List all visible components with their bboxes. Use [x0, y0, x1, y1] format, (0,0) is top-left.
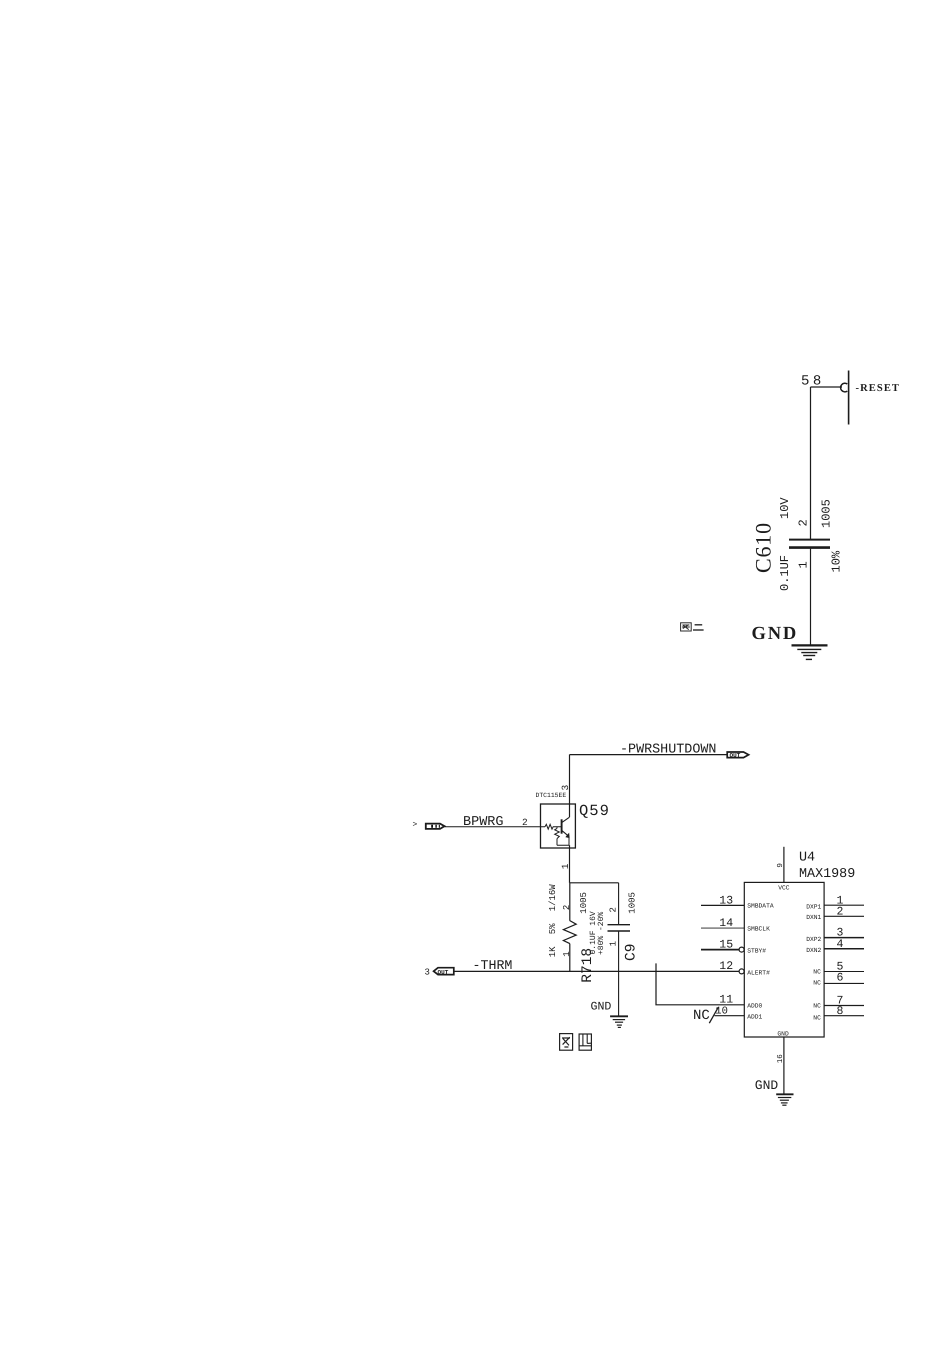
svg-text:1005: 1005	[820, 499, 834, 528]
svg-text:>: >	[413, 821, 418, 830]
svg-text:U4: U4	[799, 851, 815, 866]
pin 8 stub	[824, 1015, 864, 1017]
svg-text:NC: NC	[813, 980, 821, 987]
svg-text:DXN2: DXN2	[806, 947, 821, 954]
resistor R718	[563, 883, 576, 972]
svg-text:-PWRSHUTDOWN: -PWRSHUTDOWN	[620, 743, 716, 758]
svg-text:1: 1	[608, 941, 618, 946]
wire node to C9 top	[570, 882, 619, 884]
no-connect slash pin 10	[709, 1007, 718, 1023]
caption 图二	[681, 623, 704, 631]
svg-text:15: 15	[719, 938, 733, 951]
pin 4 stub	[824, 948, 864, 950]
pin 15 stub	[701, 949, 739, 951]
svg-text:8: 8	[837, 1005, 844, 1018]
svg-text:1: 1	[562, 951, 572, 956]
svg-text:10%: 10%	[830, 550, 844, 572]
svg-text:16: 16	[776, 1054, 785, 1064]
connector bar	[848, 371, 850, 425]
wire C610 pin1 to ground	[810, 549, 812, 645]
svg-text:GND: GND	[755, 1078, 779, 1093]
svg-text:9: 9	[776, 863, 785, 868]
svg-text:OUT: OUT	[438, 969, 449, 976]
pin 14 stub	[701, 927, 744, 929]
svg-text:SMBCLK: SMBCLK	[747, 925, 770, 932]
svg-text:NC: NC	[693, 1008, 710, 1024]
svg-text:ALERT#: ALERT#	[747, 969, 770, 976]
wire BPWRG	[445, 826, 546, 828]
svg-text:GND: GND	[752, 624, 799, 644]
svg-text:ADD0: ADD0	[747, 1003, 762, 1010]
wire collector up	[569, 755, 571, 817]
svg-text:1005: 1005	[579, 892, 589, 914]
pin 3 stub	[824, 937, 864, 939]
wire -THRM	[453, 970, 739, 972]
pin 12 bubble	[739, 969, 744, 974]
svg-text:Q59: Q59	[579, 802, 610, 820]
svg-text:13: 13	[719, 894, 733, 907]
ground (U4)	[776, 1094, 793, 1105]
svg-text:VCC: VCC	[778, 884, 790, 891]
capacitor C9	[608, 883, 631, 1017]
svg-text:+80% -20%: +80% -20%	[597, 912, 606, 955]
svg-text:ADD1: ADD1	[747, 1014, 762, 1021]
svg-text:DXP2: DXP2	[806, 936, 821, 943]
svg-text:DXN1: DXN1	[806, 914, 821, 921]
svg-text:4: 4	[837, 938, 844, 951]
svg-text:1K: 1K	[548, 946, 558, 957]
port tag IN (bpwrg)	[426, 824, 445, 829]
pin 5 stub	[824, 971, 864, 973]
svg-text:MAX1989: MAX1989	[799, 867, 855, 882]
pin 2 stub	[824, 915, 864, 917]
wire emitter pin1 down	[569, 845, 571, 883]
svg-text:C610: C610	[750, 522, 775, 573]
svg-text:5%: 5%	[548, 923, 558, 934]
svg-text:DXP1: DXP1	[806, 903, 821, 910]
svg-text:1/16W: 1/16W	[548, 884, 558, 912]
wire GND pin 16	[783, 1037, 785, 1094]
port tag OUT (thrm)	[434, 968, 454, 976]
svg-text:BPWRG: BPWRG	[463, 815, 504, 830]
pin 1 stub	[824, 904, 864, 906]
pin 15 bubble	[739, 947, 744, 952]
port tag OUT (pwrshutdown)	[727, 752, 748, 759]
svg-text:NC: NC	[813, 968, 821, 975]
svg-text:DTC115EE: DTC115EE	[536, 792, 567, 799]
pin 7 stub	[824, 1005, 864, 1007]
pin 6 stub	[824, 982, 864, 984]
transistor Q59 internals	[545, 817, 570, 845]
svg-text:10V: 10V	[778, 497, 792, 519]
svg-text:1005: 1005	[628, 892, 638, 914]
svg-text:2: 2	[837, 905, 844, 918]
svg-text:2: 2	[608, 907, 618, 912]
svg-text:10: 10	[715, 1005, 728, 1017]
transistor Q59 box	[541, 804, 576, 848]
ground (C9)	[610, 1016, 628, 1027]
svg-text:GND: GND	[777, 1031, 789, 1038]
svg-text:NC: NC	[813, 1003, 821, 1010]
pin 13 stub	[701, 904, 744, 906]
pin 10 stub	[715, 1015, 745, 1017]
svg-text:3: 3	[560, 785, 571, 791]
caption 图四	[560, 1034, 592, 1051]
svg-text:2: 2	[797, 519, 811, 526]
svg-text:-RESET: -RESET	[856, 383, 901, 394]
svg-text:OUT: OUT	[730, 752, 741, 759]
svg-text:1: 1	[560, 863, 571, 869]
IC U4 box	[744, 882, 824, 1037]
svg-text:C9: C9	[624, 944, 640, 961]
svg-text:1: 1	[797, 561, 811, 568]
svg-text:GND: GND	[591, 1001, 612, 1014]
svg-text:SMBDATA: SMBDATA	[747, 903, 774, 910]
capacitor C610	[789, 540, 830, 548]
wire VCC pin 9	[783, 847, 785, 883]
svg-text:6: 6	[837, 972, 844, 985]
svg-text:12: 12	[719, 960, 733, 973]
wire -PWRSHUTDOWN	[570, 754, 728, 756]
ground (figure 2)	[792, 645, 828, 659]
svg-text:NC: NC	[813, 1014, 821, 1021]
connector pin arc -RESET	[841, 383, 848, 392]
svg-text:2: 2	[562, 905, 572, 910]
wire node58 to connector	[811, 386, 843, 388]
svg-text:14: 14	[719, 917, 733, 930]
wire branch to ADD0	[656, 963, 744, 1004]
svg-text:3: 3	[425, 968, 430, 978]
svg-text:0.1UF: 0.1UF	[778, 555, 792, 591]
svg-text:STBY#: STBY#	[747, 947, 766, 954]
wire node58 down to C610 pin2	[810, 387, 812, 539]
svg-text:-THRM: -THRM	[473, 958, 513, 973]
